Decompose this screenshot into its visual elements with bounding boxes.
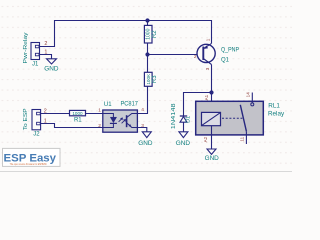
- wire relay A2 to GND: [211, 126, 213, 149]
- wire J1 pin1 to GND: [40, 55, 52, 59]
- svg-text:100K: 100K: [146, 73, 151, 85]
- svg-text:R3: R3: [152, 75, 158, 83]
- connector J1: [31, 43, 40, 60]
- svg-text:Q_PNP: Q_PNP: [221, 47, 239, 53]
- ground under U1: [138, 132, 153, 147]
- relay pin 14 stub: [251, 93, 253, 103]
- wire R2 top stub: [147, 21, 149, 26]
- svg-text:4: 4: [141, 107, 144, 113]
- relay RL1: [196, 101, 264, 135]
- wire opto pin3 to GND: [137, 128, 146, 132]
- wire R1 to opto pin1: [86, 113, 103, 115]
- svg-text:Q1: Q1: [221, 57, 230, 63]
- svg-text:14: 14: [246, 92, 251, 98]
- svg-text:GND: GND: [176, 140, 191, 147]
- wire R2 bottom to R3 top: [147, 43, 149, 72]
- svg-text:J1: J1: [32, 62, 39, 68]
- bottom border line: [0, 171, 292, 173]
- optocoupler U1: [103, 110, 138, 132]
- svg-text:GND: GND: [138, 140, 153, 147]
- wire R3 bottom to opto pin4: [137, 86, 147, 113]
- svg-text:GND: GND: [44, 65, 59, 72]
- svg-text:2: 2: [194, 54, 197, 59]
- resistor R2: [144, 25, 158, 43]
- svg-text:1: 1: [98, 107, 101, 113]
- relay pin 11 stub: [245, 131, 247, 144]
- svg-text:A1: A1: [204, 94, 209, 100]
- svg-text:A2: A2: [203, 136, 208, 142]
- transistor Q1: [197, 43, 215, 64]
- wire J2 pin1 to opto pin2: [41, 124, 103, 128]
- svg-text:2: 2: [44, 41, 47, 47]
- svg-text:R1: R1: [74, 118, 82, 124]
- svg-text:Pwr-Relay: Pwr-Relay: [23, 32, 29, 63]
- svg-text:The open source firmware for E: The open source firmware for ESP8266: [10, 162, 47, 166]
- resistor R3: [144, 72, 158, 86]
- svg-text:1000: 1000: [146, 28, 152, 39]
- svg-text:1000: 1000: [72, 111, 83, 116]
- svg-text:PC817: PC817: [121, 101, 139, 108]
- ground under D1: [176, 132, 191, 147]
- wire Q1 collector down: [211, 65, 213, 93]
- resistor R1: [70, 110, 86, 123]
- diode D1: [171, 103, 191, 129]
- svg-text:U1: U1: [104, 102, 112, 108]
- svg-text:D1: D1: [185, 116, 191, 123]
- svg-text:Relay: Relay: [268, 110, 285, 117]
- junction dot base node: [145, 52, 149, 56]
- svg-text:R2: R2: [152, 30, 158, 38]
- connector J2: [32, 110, 41, 130]
- svg-text:1N4148: 1N4148: [171, 103, 177, 129]
- wire base node to Q1 base: [148, 54, 204, 56]
- junction dot top rail / R2: [145, 18, 149, 22]
- svg-text:To ESP: To ESP: [23, 108, 29, 130]
- svg-text:3: 3: [205, 67, 210, 70]
- ground under relay: [205, 149, 220, 162]
- wire J1 pin2 to top rail to Q1 emitter: [40, 21, 212, 47]
- svg-text:J2: J2: [33, 131, 40, 137]
- ESP Easy logo: [3, 148, 61, 166]
- svg-text:RL1: RL1: [268, 103, 280, 110]
- svg-text:1: 1: [205, 38, 210, 41]
- wire into relay coil A1: [211, 93, 213, 113]
- wire J2 pin2 to R1: [41, 113, 70, 115]
- svg-text:1: 1: [44, 49, 47, 55]
- junction dot collector/diode/relay: [209, 90, 213, 94]
- svg-text:GND: GND: [205, 155, 220, 162]
- wire diode top horizontal: [184, 93, 212, 117]
- svg-text:11: 11: [239, 136, 244, 141]
- wire D1 anode to GND: [183, 122, 185, 132]
- svg-text:2: 2: [98, 123, 101, 129]
- ground under J1: [44, 59, 59, 73]
